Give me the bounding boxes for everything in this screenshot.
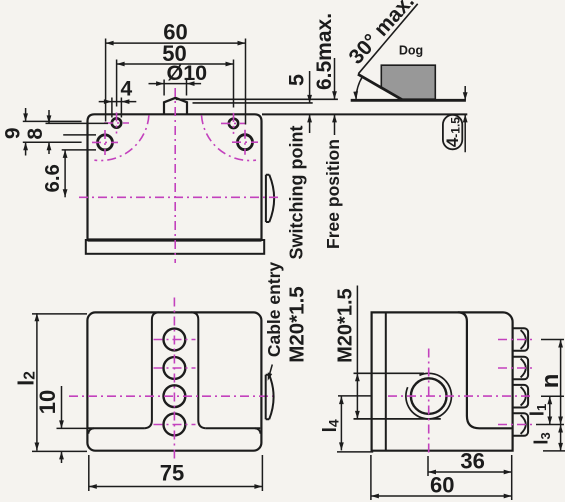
dim 60 extension lines <box>106 39 246 125</box>
svg-text:Cable entry: Cable entry <box>264 262 284 358</box>
centerline cross large hole right <box>232 130 258 155</box>
dim 75 extension lines <box>89 455 263 491</box>
row 4 extension line <box>536 424 564 426</box>
dim 10 <box>61 386 63 463</box>
small hole right <box>229 119 238 128</box>
svg-text:4: 4 <box>121 78 133 101</box>
vertical centerline front <box>174 88 176 263</box>
dim M20 side <box>356 286 358 419</box>
dog cam body <box>381 65 435 99</box>
terminal 2 <box>513 357 529 380</box>
cable entry threaded hole inner circle <box>411 378 447 414</box>
swing arc left <box>94 115 148 160</box>
dim n <box>560 340 562 425</box>
dim 10 step reference line <box>57 427 89 429</box>
svg-text:6.6: 6.6 <box>41 164 64 193</box>
boss bottom tangent line <box>354 418 441 420</box>
dim l2 <box>36 313 38 450</box>
rib hole 4 <box>164 414 186 436</box>
dim 4 line <box>99 101 137 103</box>
svg-text:6.5max.: 6.5max. <box>313 13 336 90</box>
switch body front view <box>88 114 262 241</box>
side view outline <box>372 312 513 450</box>
dim l3 bottom reference <box>543 450 565 452</box>
centerline cross large hole left <box>92 130 118 155</box>
dim Ø10 extension lines <box>164 80 186 96</box>
side wall inner line <box>385 312 387 450</box>
free position line <box>176 98 338 100</box>
dim 4-1.5 lines <box>464 86 466 152</box>
svg-text:Ø10: Ø10 <box>166 61 207 85</box>
leader line B small hole center <box>46 122 109 124</box>
centre rib right side <box>191 312 205 428</box>
base corner fillet left <box>88 428 94 434</box>
swing arc right <box>202 115 257 160</box>
svg-text:36: 36 <box>460 448 484 473</box>
svg-text:9: 9 <box>2 127 25 139</box>
dim 4 extension lines <box>112 98 122 118</box>
cable entry boss bottom view <box>266 375 274 420</box>
dim l4 <box>340 396 342 450</box>
base step line left <box>89 427 145 429</box>
mounting surface line <box>262 113 467 115</box>
switching point line <box>193 102 313 104</box>
rib hole 3 <box>164 385 186 407</box>
svg-text:n: n <box>537 374 564 389</box>
dim 36 <box>428 471 512 473</box>
mounting flange front view <box>86 240 264 254</box>
base step line right <box>205 427 260 429</box>
centerline cross small hole left <box>104 113 129 134</box>
leader line C large hole top <box>63 134 96 136</box>
DOG GROUP <box>176 0 468 259</box>
dim 60 extension line <box>370 455 372 500</box>
plunger <box>164 98 187 115</box>
dim 5 <box>309 71 311 133</box>
terminal 3 <box>513 385 529 408</box>
bottom view outline <box>87 312 261 450</box>
rib hole 1 <box>164 329 186 351</box>
centre rib left side <box>145 312 159 428</box>
base corner fillet right <box>255 428 261 434</box>
row 1 extension line <box>541 339 564 341</box>
dim 4-1.5 oval <box>443 115 462 149</box>
vertical centerline bottom view <box>173 298 175 461</box>
svg-text:Switching point: Switching point <box>287 126 307 260</box>
dim 8 <box>48 110 50 154</box>
horizontal centerline front <box>79 196 279 198</box>
dim l1 <box>549 396 551 424</box>
dim l2 reference lines <box>32 314 87 452</box>
svg-text:M20*1.5: M20*1.5 <box>286 286 309 362</box>
leader line E large hole bottom <box>62 149 96 151</box>
dim l4 reference lines <box>337 396 373 452</box>
dim 50 line <box>117 63 234 65</box>
FRONT VIEW GROUP <box>2 19 279 263</box>
svg-text:10: 10 <box>35 390 60 414</box>
terminal row centerline 2 <box>498 367 534 369</box>
terminal row centerline 4 <box>498 424 534 426</box>
horizontal centerline bottom view <box>69 395 277 397</box>
dim 6.5max <box>334 58 336 135</box>
leader line D large hole center <box>23 141 82 143</box>
dog slide line <box>351 99 466 102</box>
dim 36 extension lines <box>428 455 512 500</box>
svg-text:75: 75 <box>160 461 184 486</box>
dim 6.6 <box>64 150 66 197</box>
svg-text:60: 60 <box>430 473 454 498</box>
svg-text:M20*1.5: M20*1.5 <box>335 288 357 363</box>
cable entry boss edge view (front right) <box>266 175 274 222</box>
side vertical centerline <box>428 349 430 456</box>
terminal 1 <box>513 328 529 351</box>
small hole left <box>112 118 121 127</box>
terminal row centerline 1 <box>498 339 534 341</box>
leader line A small hole top <box>23 120 82 122</box>
svg-text:Dog: Dog <box>399 44 423 58</box>
cable entry leader arrow <box>269 365 273 378</box>
boss top tangent line <box>354 372 425 374</box>
SIDE VIEW GROUP <box>320 286 565 501</box>
30 degree leader line <box>358 4 417 74</box>
svg-text:5: 5 <box>285 74 309 86</box>
dim 75 <box>89 486 263 488</box>
dim 9 <box>25 108 27 156</box>
hole row line 1 <box>154 339 196 341</box>
large hole right <box>238 135 253 150</box>
terminal compartment line <box>458 312 513 428</box>
row 3 extension line <box>541 395 564 397</box>
dim Ø10 line <box>149 83 202 85</box>
dim 50 extension lines <box>117 60 234 108</box>
thread major diameter arc <box>406 373 452 419</box>
dim 60 bottom <box>371 495 512 497</box>
svg-text:Free position: Free position <box>323 139 343 249</box>
BOTTOM VIEW GROUP <box>14 262 309 491</box>
dim 60 line <box>106 42 246 44</box>
angle arc <box>356 76 363 100</box>
hole row line 4 <box>154 424 196 426</box>
large hole left <box>98 135 113 150</box>
hole row line 2 <box>154 367 196 369</box>
dim l3 <box>560 425 562 451</box>
body bottom thick line <box>88 238 262 241</box>
rib hole 2 <box>164 357 186 379</box>
dog chamfer edge 30 degrees <box>358 74 402 99</box>
side horizontal centerline <box>388 395 534 397</box>
terminal 4 <box>513 413 529 436</box>
centerline cross small hole right <box>221 113 246 134</box>
svg-text:8: 8 <box>24 128 47 140</box>
